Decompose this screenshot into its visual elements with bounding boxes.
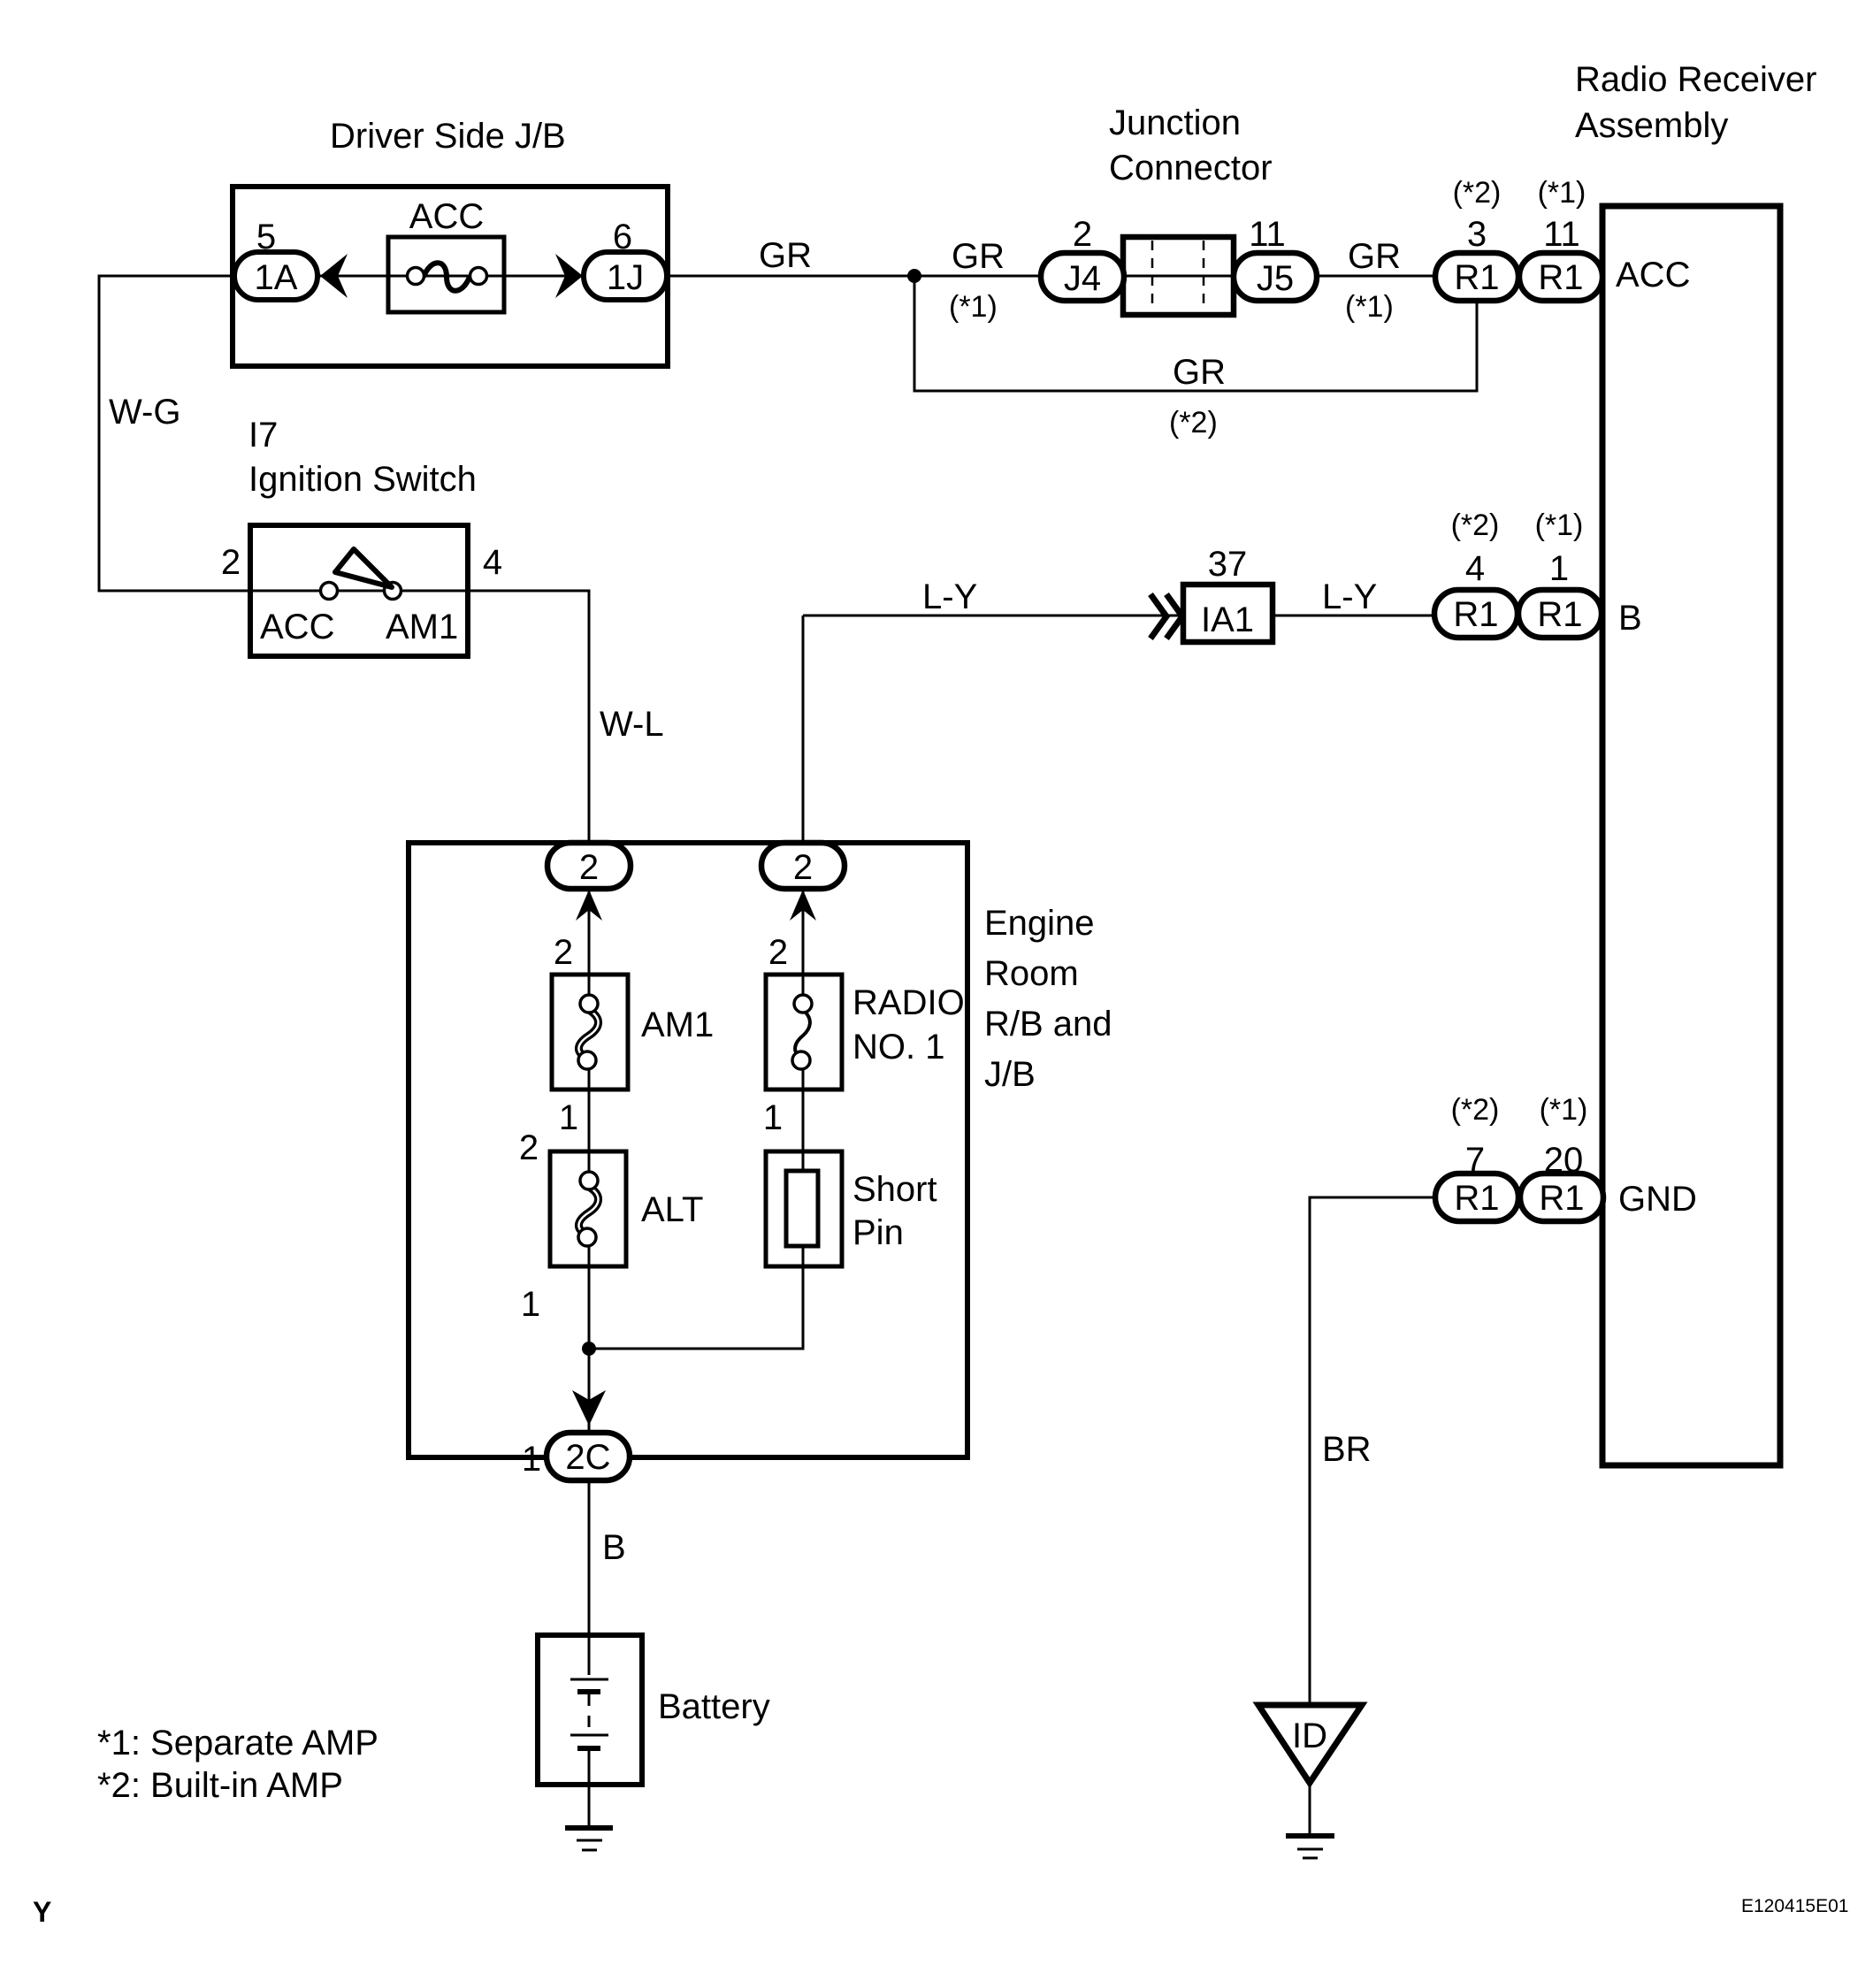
wire oval2 to fuse AM1 [588,871,591,995]
fuse ALT box [550,1151,626,1266]
connector R1 pin 1 B [1518,590,1602,638]
node GR junction dot [907,269,921,283]
svg-text:2C: 2C [565,1438,610,1477]
svg-text:ALT: ALT [641,1190,703,1229]
fuse AM1 symbol [578,1010,598,1058]
svg-text:(*2): (*2) [1453,176,1502,210]
connector 1A pin 5 [234,252,317,300]
wire short pin to junction node [589,1246,803,1349]
svg-text:(*1): (*1) [1535,508,1584,542]
connector J5 pin 11 [1234,253,1317,301]
svg-text:GND: GND [1618,1180,1697,1219]
svg-text:7: 7 [1465,1141,1485,1180]
svg-text:4: 4 [1465,549,1485,588]
battery box [538,1635,642,1785]
ground below battery [565,1825,613,1831]
svg-text:6: 6 [613,218,632,256]
connector IA1 pin 37 [1183,585,1273,642]
wire main ACC row from 1A through fuse, node, junction connector to radio [276,275,1602,278]
svg-text:2: 2 [554,933,573,972]
wire L-Y branch down to engine room oval 2 [802,616,805,871]
svg-text:(*2): (*2) [1169,406,1218,440]
short pin outer box [766,1151,842,1266]
svg-text:1: 1 [1549,549,1569,588]
connector R1 pin 7 GND [1435,1174,1518,1221]
arrow pennant down above 2C [572,1390,606,1426]
arrow pennant up below left oval 2 [576,890,602,921]
svg-text:R1: R1 [1538,258,1583,297]
battery plate thick top [577,1689,600,1694]
svg-text:BR: BR [1322,1430,1372,1469]
svg-text:*2: Built-in AMP: *2: Built-in AMP [97,1766,343,1805]
arrow pennant left after 1A [320,254,348,298]
battery plate thick bottom [577,1746,600,1751]
svg-text:3: 3 [1467,215,1487,254]
svg-text:1: 1 [521,1285,540,1324]
svg-text:J5: J5 [1257,259,1294,298]
node engine room junction dot [582,1342,596,1356]
svg-text:R/B and: R/B and [984,1005,1112,1044]
svg-text:GR: GR [759,236,812,275]
connector R1 pin 11 ACC [1519,253,1602,301]
wire fuse RADIO NO.1 to short pin [802,1068,805,1171]
connector R1 pin 20 GND [1520,1174,1603,1221]
arrow pennant up below right oval 2 [790,890,816,921]
svg-text:1J: 1J [607,258,644,297]
svg-text:Radio Receiver: Radio Receiver [1575,60,1816,99]
svg-text:R1: R1 [1454,1179,1499,1218]
svg-text:Assembly: Assembly [1575,106,1728,145]
short pin inner element [786,1171,818,1246]
arrow pennant right before 1J [555,254,583,298]
connector 1J pin 6 [584,252,667,300]
battery plate long top [570,1678,608,1681]
ignition switch contact ACC [321,583,338,600]
svg-text:ACC: ACC [409,197,484,236]
svg-text:1: 1 [522,1440,541,1479]
connector 2C pin 1 [547,1433,630,1480]
svg-text:R1: R1 [1539,1179,1584,1218]
junction connector dashed partition lines [1152,241,1204,311]
connector oval 2 right on engine room box [761,843,845,889]
svg-text:GR: GR [1348,237,1401,276]
svg-text:Short: Short [852,1170,937,1209]
svg-text:Ignition Switch: Ignition Switch [248,460,477,499]
svg-text:J4: J4 [1064,259,1101,298]
svg-text:B: B [602,1528,626,1567]
svg-text:(*1): (*1) [949,290,998,324]
ignition switch contact AM1 [385,583,401,600]
svg-text:E120415E01: E120415E01 [1741,1896,1848,1916]
svg-text:Pin: Pin [852,1213,904,1252]
svg-text:37: 37 [1208,545,1248,584]
svg-text:Junction: Junction [1109,103,1241,142]
wire B from 2C to battery [588,1464,591,1675]
svg-text:Driver Side J/B: Driver Side J/B [330,117,566,156]
wire fuse ALT to connector 2C [588,1245,591,1450]
svg-text:GR: GR [1173,353,1226,392]
svg-text:ACC: ACC [1616,256,1690,294]
fuse RADIO NO.1 box [766,975,842,1090]
connector oval 2 left on engine room box [547,843,631,889]
fuse ACC box [388,237,504,312]
fuse ACC symbol [424,263,470,291]
svg-text:L-Y: L-Y [1322,577,1377,616]
connector J4 pin 2 [1041,253,1124,301]
wire GR (*2) bypass from node to R1 pin 3 [914,276,1477,391]
svg-text:11: 11 [1249,215,1286,254]
svg-text:1A: 1A [255,258,298,297]
svg-text:R1: R1 [1454,258,1499,297]
connector R1 pin 4 B [1434,590,1518,638]
junction connector box [1123,237,1234,315]
svg-text:1: 1 [763,1098,783,1137]
wire W-G from 1A to ignition switch pin 2 [99,276,276,591]
fuse AM1 box [552,975,628,1090]
ignition switch lever [335,549,392,587]
svg-text:GR: GR [952,237,1005,276]
svg-text:(*1): (*1) [1538,176,1586,210]
svg-text:ID: ID [1292,1717,1327,1755]
svg-text:1: 1 [559,1098,578,1137]
svg-text:R1: R1 [1537,595,1582,634]
svg-text:AM1: AM1 [641,1005,714,1044]
svg-text:Room: Room [984,954,1079,993]
wire ignition internal and W-L down to engine room [252,591,589,871]
svg-text:Y: Y [33,1896,51,1928]
svg-text:2: 2 [768,933,788,972]
svg-text:J/B: J/B [984,1055,1036,1094]
svg-text:NO. 1: NO. 1 [852,1028,944,1067]
wire L-Y row to IA1 and R1 [803,615,1476,617]
svg-text:2: 2 [579,848,599,887]
svg-text:RADIO: RADIO [852,983,965,1022]
svg-text:AM1: AM1 [386,608,458,646]
svg-text:Battery: Battery [658,1687,770,1726]
svg-text:W-G: W-G [109,393,180,432]
wire battery to ground [588,1748,591,1825]
fuse ALT symbol [578,1187,598,1235]
Driver Side J/B box [233,187,668,366]
svg-text:Engine: Engine [984,904,1095,943]
svg-text:W-L: W-L [600,705,664,744]
svg-text:4: 4 [483,543,502,582]
svg-text:ACC: ACC [260,608,334,646]
svg-text:B: B [1618,599,1642,638]
svg-text:2: 2 [1073,215,1092,254]
svg-text:IA1: IA1 [1201,600,1254,639]
svg-text:(*2): (*2) [1451,508,1500,542]
connector R1 pin 3 ACC [1435,253,1518,301]
svg-text:(*2): (*2) [1451,1093,1500,1127]
svg-text:L-Y: L-Y [922,577,977,616]
svg-text:11: 11 [1543,215,1580,254]
battery dashed center line [588,1694,591,1733]
wire oval2 to fuse RADIO NO.1 [802,871,805,995]
svg-text:(*1): (*1) [1540,1093,1588,1127]
battery plate long bottom [570,1734,608,1737]
svg-text:Connector: Connector [1109,149,1273,187]
wire fuse AM1 to fuse ALT [588,1068,591,1172]
ground below ID [1286,1833,1334,1839]
svg-text:R1: R1 [1453,595,1498,634]
fuse RADIO NO.1 symbol [795,1010,810,1058]
ignition switch I7 box [250,525,468,656]
svg-text:2: 2 [793,848,813,887]
svg-text:5: 5 [256,218,276,256]
svg-text:20: 20 [1544,1141,1584,1180]
double chevron before IA1 [1151,594,1182,638]
svg-text:I7: I7 [248,416,278,455]
svg-text:2: 2 [221,543,241,582]
wire ID triangle to ground [1309,1783,1311,1834]
ID triangle ground marker [1258,1705,1362,1783]
Engine Room R/B and J/B box [409,843,967,1457]
Radio Receiver Assembly box [1602,206,1780,1465]
svg-text:2: 2 [519,1128,539,1167]
wire BR from R1 GND to ID triangle [1310,1197,1476,1705]
svg-text:(*1): (*1) [1345,290,1394,324]
svg-text:*1: Separate AMP: *1: Separate AMP [97,1724,378,1762]
